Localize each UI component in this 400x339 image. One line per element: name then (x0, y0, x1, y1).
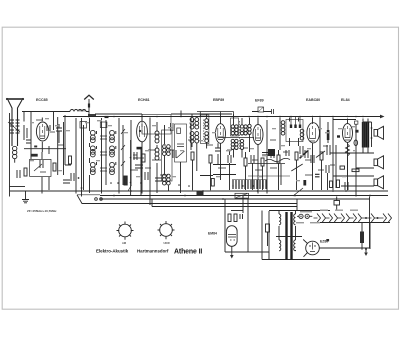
pot diagonal (291, 164, 302, 171)
wire main top bus (63, 116, 380, 118)
mains plug dot (326, 239, 329, 241)
band switch contacts (119, 118, 125, 194)
junction dots bottom (110, 182, 371, 200)
svg-text:EF89: EF89 (255, 99, 264, 103)
mains line (269, 210, 330, 212)
svg-text:EL84: EL84 (341, 98, 350, 102)
svg-text:UKW: UKW (164, 241, 171, 245)
chassis arrow EM84 (230, 252, 234, 259)
rectifier tube EZ80 (303, 240, 319, 257)
tuner coil stack A (90, 118, 97, 193)
speaker 1 (374, 126, 384, 139)
antenna (6, 98, 24, 163)
NTC resistor (360, 223, 364, 250)
speaker 3 (374, 176, 384, 189)
svg-text:Elektro-Akustik: Elektro-Akustik (96, 249, 129, 254)
junction dots heater (365, 217, 379, 219)
chassis arrow right (364, 249, 368, 256)
wire heater return (314, 222, 391, 224)
misc left-bottom components row1 (40, 115, 87, 197)
AVC network (200, 143, 275, 198)
extra tie wires (36, 120, 335, 175)
svg-text:EBF89: EBF89 (213, 98, 224, 102)
wire speaker feed top (333, 119, 356, 121)
heater resistor chain (314, 214, 392, 223)
fuse (334, 201, 340, 206)
tube ECC85 (36, 118, 48, 153)
rotary switch S2 (158, 221, 175, 239)
trimmer caps top (171, 119, 194, 131)
svg-text:ECH81: ECH81 (138, 98, 150, 102)
svg-text:ZF=455kHz+10,7MHz: ZF=455kHz+10,7MHz (27, 209, 57, 213)
components stage1 (10, 112, 67, 194)
antenna coupling coils (8, 120, 20, 133)
wire left edge vertical (9, 113, 11, 197)
pilot lamps (297, 214, 312, 218)
misc small components mid (173, 112, 350, 194)
volume pot dark (124, 176, 127, 185)
IF transformer T1 (190, 114, 209, 171)
dial assembly (77, 195, 297, 204)
power transformer (262, 211, 330, 261)
rotary switch S1 (117, 222, 134, 240)
dense resistor row (232, 180, 267, 190)
oscillator coil (155, 122, 159, 193)
magic eye wiring (225, 196, 269, 260)
wire right power verticals (319, 197, 369, 249)
ground main left (22, 191, 29, 203)
tube EABC80 (307, 118, 320, 171)
IF transformer T0 (128, 125, 172, 196)
tube EM84 (227, 226, 238, 252)
wire top bus segments (22, 111, 89, 113)
tuner trimmer column (100, 118, 107, 194)
wire x150 (149, 118, 151, 206)
svg-text:Athene II: Athene II (174, 249, 202, 256)
screen filter box (252, 107, 274, 114)
arrow top right (380, 115, 385, 119)
tiny value smudges (30, 118, 358, 223)
svg-text:EM84: EM84 (208, 232, 217, 236)
output transformer (362, 119, 369, 153)
svg-text:Hartmannsdorf: Hartmannsdorf (137, 249, 169, 254)
tube ECH81 (137, 114, 148, 194)
ratio detector transformer (281, 117, 304, 147)
tube EL84 (343, 119, 353, 191)
IF transformer T3b (218, 118, 254, 158)
dark component on bus (197, 191, 204, 197)
FM dipole arrow (79, 95, 109, 117)
AM oscillator box (175, 111, 187, 194)
junction dot bottom (365, 248, 367, 250)
EL84 stage small parts (330, 118, 374, 197)
svg-text:EABC80: EABC80 (306, 98, 320, 102)
tube EBF89 (216, 114, 226, 180)
wire secondary top line (95, 113, 232, 115)
svg-text:ECC85: ECC85 (36, 98, 48, 102)
bottom bus lines (10, 190, 388, 192)
wire verticals tuner (130, 120, 132, 185)
junction dots top bus (88, 116, 364, 118)
tuner coil stack C (110, 130, 116, 174)
speaker 2 (374, 156, 384, 169)
parts under ECH81 (134, 147, 163, 181)
svg-text:AM: AM (122, 241, 126, 245)
wire antenna line bumps (70, 110, 86, 112)
IF transformer T3 (231, 114, 239, 158)
mixer box (142, 115, 171, 135)
coil col x249 (248, 118, 251, 153)
wire chain drop (366, 223, 370, 253)
tube EF89 (253, 118, 263, 194)
